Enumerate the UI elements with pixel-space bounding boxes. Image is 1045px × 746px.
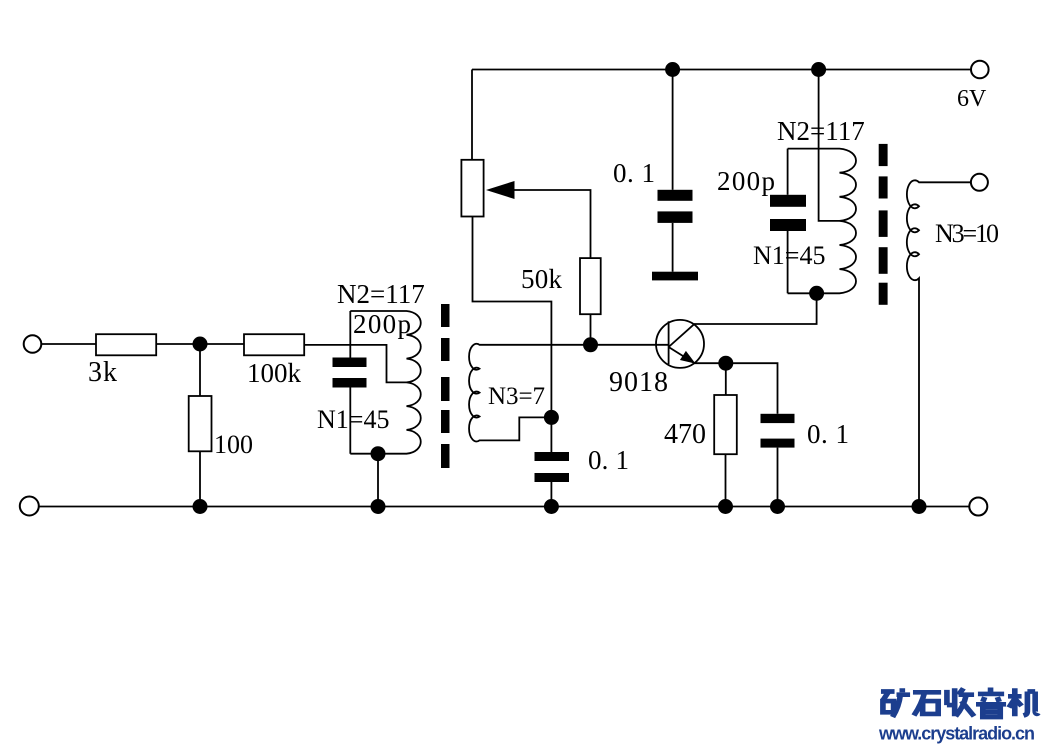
svg-text:9018: 9018 (609, 367, 668, 398)
terminal: output bottom (969, 498, 987, 516)
svg-text:200p: 200p (717, 166, 775, 196)
terminal: input top (24, 335, 42, 353)
transformer T2 secondary winding N3=10 (907, 180, 971, 506)
node: ground rail at 0.1 (544, 499, 559, 514)
capacitor 200p (T2 tank) top plate (770, 195, 806, 207)
capacitor 0.1 (emitter-side bypass) bottom plate (535, 473, 570, 482)
transformer T1 secondary winding N3=7 (469, 344, 669, 442)
wire: 50k to base node (590, 314, 592, 345)
wire: T2 top to capacitor 200p (787, 149, 789, 195)
wire: emitter node to bypass 0.1 (726, 363, 778, 414)
svg-text:200p: 200p (353, 309, 411, 339)
resistor 3k (96, 334, 156, 355)
terminal: +6V battery post (971, 61, 989, 79)
svg-text:0. 1: 0. 1 (807, 419, 849, 449)
ground: stub bar (652, 272, 698, 281)
wire: T1 top to capacitor 200p (349, 311, 351, 358)
wire: top rail to capacitor 0.1 (supply bypass) (672, 70, 674, 190)
node: T2 bottom / collector junction (809, 286, 824, 301)
wire: 200p to T1 bottom (349, 388, 351, 454)
node: ground rail at R100 (193, 499, 208, 514)
wire: 200p to T2 bottom (787, 231, 789, 293)
capacitor 0.1 (emitter bypass) bottom plate (761, 439, 795, 448)
node: junction 3k/100/100k (193, 337, 208, 352)
node: ground rail at 470 (718, 499, 733, 514)
node: T1 bottom junction (371, 446, 386, 461)
wire: emitter to node (694, 362, 726, 364)
svg-text:N1=45: N1=45 (317, 405, 389, 434)
svg-text:N2=117: N2=117 (337, 279, 425, 309)
wire: bypass cap to ground stub (672, 223, 674, 272)
node: ground rail at N3=10 (912, 499, 927, 514)
wire: input to R 3k (41, 343, 96, 345)
svg-text:www.crystalradio.cn: www.crystalradio.cn (878, 724, 1035, 744)
node: N3=7 cold end junction (544, 410, 559, 425)
node: ground rail at T1 (371, 499, 386, 514)
node: base junction (583, 337, 598, 352)
resistor 100 (189, 396, 212, 451)
capacitor 200p (T2 tank) bottom plate (770, 219, 806, 231)
wire: 0.1 to ground rail (550, 482, 552, 507)
svg-text:50k: 50k (521, 264, 563, 294)
svg-text:N2=117: N2=117 (777, 116, 865, 146)
wire: node down to R 100 (199, 344, 201, 396)
svg-text:0. 1: 0. 1 (588, 445, 629, 475)
terminal: input bottom (20, 497, 39, 516)
wire: 470 to ground rail (725, 454, 727, 506)
svg-text:470: 470 (664, 419, 706, 450)
wire: 100k to T1 tap (304, 345, 406, 383)
transformer T2 primary winding N2=117 + N1=45 (788, 149, 856, 294)
wire: ground rail (39, 506, 970, 508)
resistor 50k (580, 258, 601, 314)
svg-text:N1=45: N1=45 (753, 241, 825, 270)
node: supply rail / T2 tap junction (811, 62, 826, 77)
core: T1 laminated core (dashed) (441, 304, 450, 468)
watermark logo crystalradio (881, 688, 1038, 718)
svg-text:N3=10: N3=10 (935, 219, 999, 248)
terminal: output top (971, 174, 988, 191)
potentiometer body (volume control) (461, 160, 483, 217)
capacitor 0.1 (emitter-side bypass) top plate (535, 452, 570, 461)
capacitor 0.1 (supply bypass) top plate (658, 190, 693, 201)
resistor 470 (714, 395, 737, 454)
capacitor 200p (T1 tank) top plate (333, 358, 367, 368)
svg-text:0. 1: 0. 1 (613, 158, 655, 188)
potentiometer wiper arrow (486, 181, 515, 199)
transistor 9018 (656, 320, 704, 368)
svg-text:100: 100 (214, 430, 253, 459)
transformer T1 primary winding N2=117 + N1=45 (350, 311, 420, 454)
wire: emitter bypass to ground rail (777, 448, 779, 507)
capacitor 0.1 (emitter bypass) top plate (761, 414, 795, 423)
glyph kuang (881, 688, 910, 717)
svg-text:6V: 6V (957, 86, 987, 112)
capacitor 0.1 (supply bypass) bottom plate (658, 211, 693, 223)
wire: emitter node to R 470 (725, 363, 727, 395)
wire: pot bottom to N3=7 cold end (473, 217, 552, 418)
resistor 100k (244, 334, 304, 355)
glyph shi (913, 692, 941, 715)
glyph ji (1008, 688, 1038, 716)
svg-text:100k: 100k (247, 358, 302, 388)
node: ground rail at emitter 0.1 (770, 499, 785, 514)
svg-text:N3=7: N3=7 (488, 383, 545, 410)
wire: 3k to 100k through node (156, 343, 244, 345)
wire: top supply rail (472, 69, 971, 71)
core: T2 laminated core (dashed) (879, 144, 888, 305)
wire: wiper to 50k (508, 190, 591, 258)
node: rail / bypass cap junction (665, 62, 680, 77)
wire: R 100 to ground rail (199, 451, 201, 506)
glyph yin (976, 688, 1006, 718)
wire: junction down to capacitor 0.1 (550, 417, 552, 452)
capacitor 200p (T1 tank) bottom plate (333, 378, 367, 388)
node: emitter junction (718, 356, 733, 371)
wire: supply to T2 tap (819, 70, 840, 221)
wire: T1 bottom to ground rail (377, 454, 379, 507)
wire: top rail down to potentiometer (471, 70, 473, 160)
svg-text:3k: 3k (88, 357, 117, 388)
wire: collector to T2 bottom (694, 293, 817, 324)
glyph shou (947, 688, 974, 716)
